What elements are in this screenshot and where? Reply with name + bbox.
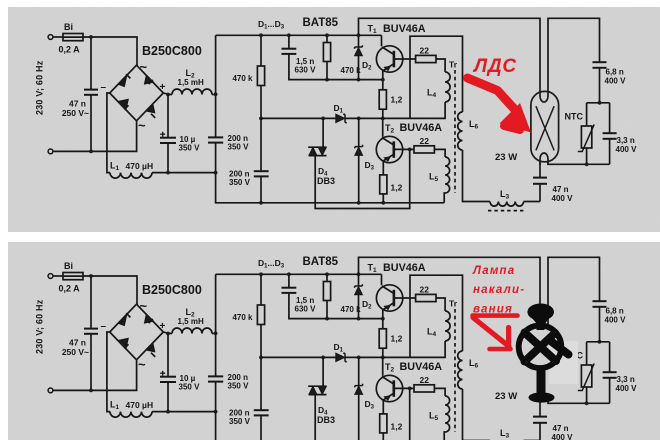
bottom panel background — [8, 242, 660, 440]
lamp bulb ring — [519, 325, 562, 368]
red arrow to incandescent lamp — [473, 316, 518, 349]
fluorescent lamp symbol (top panel) — [531, 88, 559, 165]
red label lampa nakalivaniya (bottom panel) — [472, 265, 525, 316]
svg-text:Лампа: Лампа — [472, 265, 515, 277]
svg-text:накали-: накали- — [473, 284, 525, 296]
lamp X mark — [525, 333, 569, 362]
lamp bottom blob — [529, 393, 554, 402]
light patch behind incandescent lamp (bottom panel) — [549, 341, 578, 384]
red arrow to fluorescent lamp — [468, 78, 532, 133]
lamp bottom stem — [537, 366, 546, 395]
bottom panel schematic — [35, 256, 638, 440]
top panel background — [8, 7, 660, 232]
lamp top blob — [528, 304, 554, 320]
top panel schematic — [35, 17, 638, 210]
svg-text:ЛДС: ЛДС — [472, 56, 517, 77]
incandescent lamp (marker drawn, bottom panel) — [519, 304, 569, 402]
